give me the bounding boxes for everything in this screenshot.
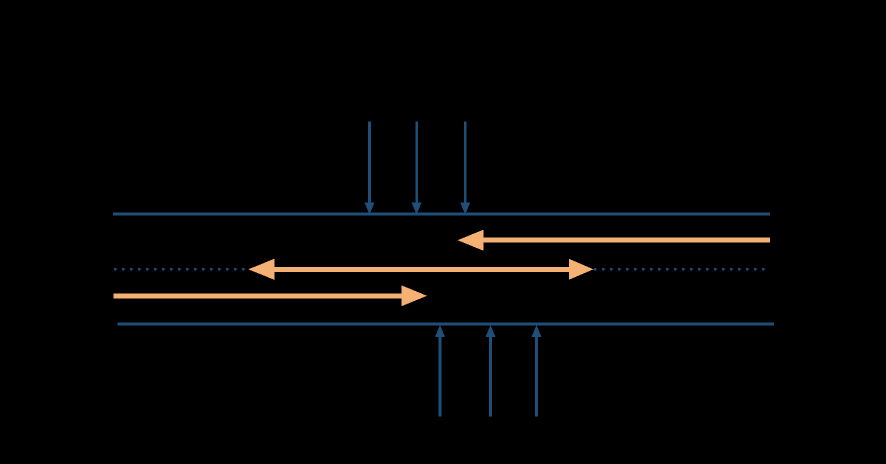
- up arrow U3: [532, 325, 542, 417]
- dotted centerline: [114, 268, 766, 271]
- orange arrow lower (rightward): [114, 285, 427, 306]
- orange double arrow center: [248, 259, 593, 280]
- bottom boundary line: [118, 323, 775, 326]
- down arrow D3: [460, 121, 470, 214]
- orange arrow upper (leftward): [458, 230, 771, 251]
- top boundary line: [113, 213, 770, 216]
- up arrow U2: [486, 325, 496, 417]
- down arrow D2: [412, 121, 422, 214]
- down arrow D1: [365, 121, 375, 214]
- up arrow U1: [435, 325, 445, 417]
